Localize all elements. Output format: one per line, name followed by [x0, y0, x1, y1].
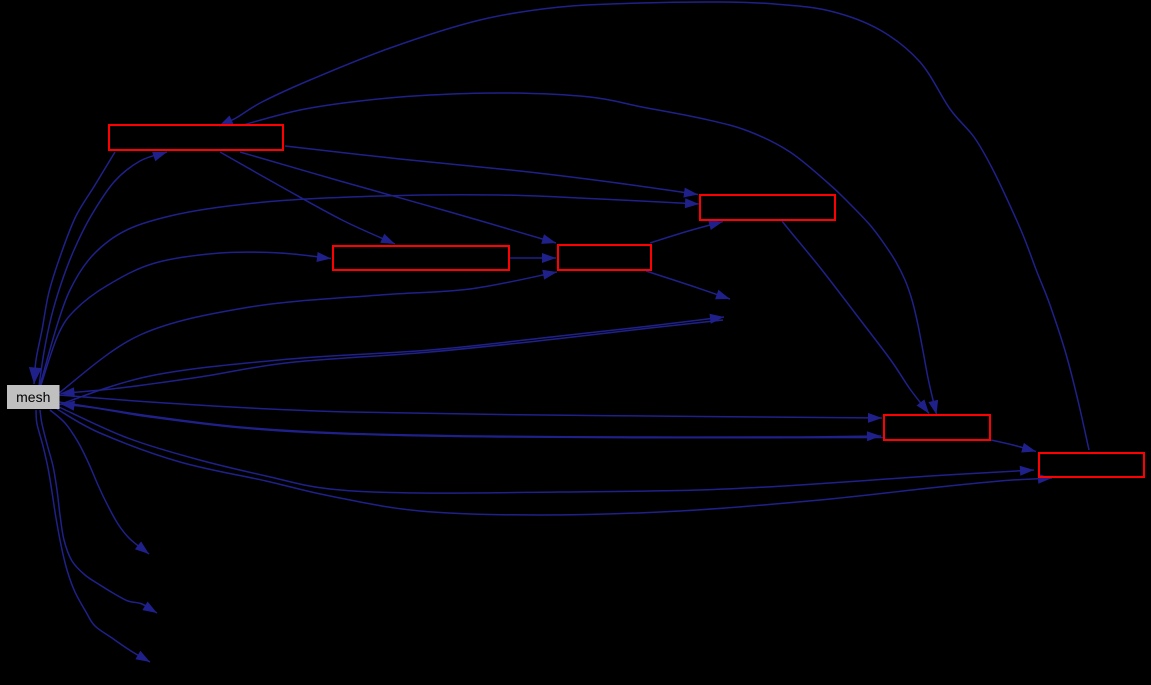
- svg-text:mesh: mesh: [16, 389, 50, 405]
- edge mesh to nodeB: [50, 317, 724, 408]
- node box4: [558, 245, 651, 270]
- edge mesh to nodeD: [40, 410, 157, 613]
- edge nodeB to mesh: [61, 320, 724, 394]
- edge box1 to box3: [220, 152, 395, 244]
- edge mesh to nodeE: [36, 410, 150, 662]
- edge mesh to box4: [59, 272, 557, 393]
- edge box5 to mesh: [61, 404, 884, 438]
- edge mesh to nodeC: [50, 410, 149, 554]
- edge box1 to box4: [240, 152, 556, 243]
- edge box6 to box1: [219, 2, 1089, 450]
- edge box1 to mesh: [34, 152, 115, 384]
- edge box2 to box5: [782, 221, 929, 414]
- node box3: [333, 246, 509, 270]
- edge box4 to box2: [650, 222, 723, 244]
- edge box1 to box2: [285, 146, 698, 195]
- edge mesh to box2: [40, 195, 699, 385]
- edge mesh to box1: [39, 152, 167, 386]
- edge box3 to box4: [510, 257, 556, 259]
- edge box5 to box6: [991, 440, 1036, 452]
- node box5: [884, 415, 990, 440]
- node box2: [700, 195, 835, 220]
- node box6: [1039, 453, 1144, 477]
- edge mesh to box6 a: [59, 407, 1034, 493]
- edge mesh to box5 lower: [59, 402, 881, 437]
- node box1: [109, 125, 283, 150]
- edge mesh to box3: [41, 252, 331, 385]
- node mesh: [7, 385, 60, 409]
- edge box4 to nodeA: [646, 271, 730, 299]
- edge box1 to box5: [243, 93, 937, 415]
- edge mesh to box6 b: [57, 409, 1052, 515]
- edge mesh to box5 upper: [59, 395, 882, 418]
